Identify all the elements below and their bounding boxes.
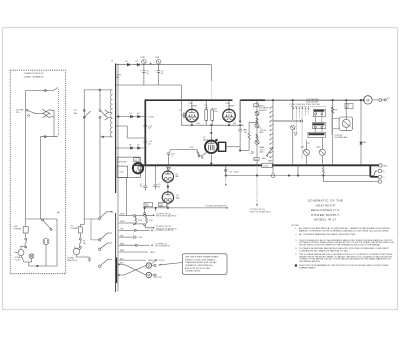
- svg-text:117VAC: 117VAC: [67, 257, 75, 260]
- primary feed left vertical: [83, 90, 85, 225]
- svg-text:1 15KV 10KV 5KV 2.5KV 1KV 500: 1 15KV 10KV 5KV 2.5KV 1KV 500: [289, 104, 320, 106]
- svg-text:SCHEMATIC OF THE: SCHEMATIC OF THE: [308, 199, 344, 203]
- filter cap drop 2: [153, 165, 157, 189]
- heavy out leg down: [369, 165, 371, 177]
- coil to lower wire: [50, 110, 54, 136]
- tube V1: [186, 109, 199, 122]
- heavy rail top: [145, 99, 265, 101]
- note (A): [57, 211, 60, 214]
- svg-text:GRN: GRN: [150, 252, 155, 254]
- svg-text:POWER: POWER: [14, 229, 22, 231]
- choke on bus: [262, 163, 272, 167]
- junction dots: [145, 116, 147, 118]
- dashed link line: [57, 89, 58, 137]
- wire lower-left vertical: [39, 137, 41, 219]
- connector stubs: [152, 266, 155, 276]
- svg-text:+150V: +150V: [148, 116, 155, 118]
- tap row 3: [119, 229, 135, 231]
- DC+ jack: [379, 99, 382, 102]
- svg-text:(A): (A): [57, 211, 60, 214]
- main line plug: [73, 248, 79, 254]
- bleeder resistor right: [322, 165, 324, 175]
- loop resistor b: [146, 216, 148, 224]
- meter right lead: [372, 99, 379, 101]
- core lines: [117, 64, 118, 292]
- heater drop dashed: [256, 168, 258, 206]
- grid resistor R3: [197, 150, 207, 157]
- resistor block 2: [312, 123, 325, 129]
- pot P2: [255, 124, 259, 128]
- tap row 2: [119, 222, 134, 224]
- rect diode D3: [130, 115, 132, 118]
- electrolytic C1: [142, 65, 145, 85]
- diode labels: [126, 61, 139, 63]
- wire left vertical: [25, 91, 27, 220]
- filament winding heavy segment: [116, 258, 118, 284]
- svg-text:CONNECTIONS.: CONNECTIONS.: [185, 271, 201, 273]
- svg-text:PIN 7 OF V2 (NOTE 2): PIN 7 OF V2 (NOTE 2): [250, 212, 271, 214]
- feedback loop wires: [249, 123, 257, 151]
- V5 lead: [167, 165, 169, 171]
- inset right vertical: [56, 219, 58, 266]
- cal pots under block: [303, 149, 309, 155]
- node circle lower: [44, 136, 46, 138]
- top rail wire: [116, 64, 212, 66]
- V3 label: [203, 137, 209, 141]
- switch contacts: [270, 106, 273, 158]
- output column: [332, 100, 334, 165]
- rect feed 2 wire: [116, 147, 146, 149]
- transformer primary (inset): [42, 109, 47, 118]
- heavy ground bus: [140, 164, 379, 166]
- crossing heater wires: [119, 264, 146, 275]
- dashed link verticals: [301, 107, 303, 160]
- svg-text:CHASSIS IS WIRED FOR 230 VAC: CHASSIS IS WIRED FOR 230 VAC: [185, 261, 217, 264]
- svg-text:VOLTAGE ADJ: VOLTAGE ADJ: [334, 136, 347, 139]
- rect diode D6: [138, 147, 140, 150]
- B+ vertical: [360, 100, 362, 165]
- svg-text:WIRING COLOR CODE WHEN A: WIRING COLOR CODE WHEN A: [185, 258, 216, 261]
- V1 bottom lead: [191, 122, 193, 125]
- screen resistor R1: [205, 110, 208, 121]
- pot P3: [255, 140, 259, 144]
- tube V2: [223, 109, 236, 122]
- tap switch left (115/230): [83, 109, 85, 111]
- svg-text:PLUG: PLUG: [15, 259, 21, 261]
- wire from switch to coil: [34, 112, 43, 114]
- switch label: [16, 109, 24, 115]
- screen box: [117, 157, 140, 177]
- main fuse F1: [79, 238, 81, 240]
- V3 output wire: [226, 146, 240, 148]
- svg-text:MODEL IP-17: MODEL IP-17: [314, 218, 336, 222]
- header text: [289, 99, 320, 106]
- output terminal 1: [379, 164, 382, 167]
- V2 bottom lead: [228, 122, 230, 125]
- T1 label: [111, 61, 114, 63]
- svg-text:NOTES:: NOTES:: [292, 225, 300, 227]
- filter cap drop 1: [143, 165, 147, 190]
- mech link dashed: [330, 108, 332, 135]
- C6 bottom wire: [240, 150, 249, 152]
- meter M: [364, 96, 372, 104]
- wiper feed wire: [273, 120, 301, 122]
- svg-text:GRN-YEL: GRN-YEL: [118, 162, 128, 164]
- output pot enclosure: [339, 117, 353, 130]
- winding tap chevrons: [105, 110, 109, 120]
- tube V5: [162, 171, 173, 182]
- tap row 6: [119, 251, 148, 253]
- bottom wire connector: [102, 136, 104, 138]
- switch feed to rail jack: [271, 174, 275, 178]
- resistor block 1: [313, 109, 325, 116]
- svg-text:LINE PLUG: LINE PLUG: [67, 260, 78, 262]
- box lower lead: [126, 177, 128, 215]
- svg-text:PL1 6.3V: PL1 6.3V: [154, 277, 163, 279]
- secondary winding (upper): [115, 64, 117, 194]
- callout box: [183, 254, 228, 274]
- svg-text:HEATHKIT®: HEATHKIT®: [315, 203, 335, 207]
- rail corner down: [210, 65, 212, 81]
- svg-text:TRANSFORMER.: TRANSFORMER.: [299, 266, 316, 269]
- V5-V6 link: [167, 182, 169, 192]
- inset bottom rail: [29, 265, 57, 267]
- primary bottom wire: [100, 118, 112, 137]
- loop resistor a: [135, 216, 137, 224]
- drop 2: [155, 208, 157, 212]
- svg-text:AND NOTE 6 FOR 115 VAC: AND NOTE 6 FOR 115 VAC: [185, 267, 211, 270]
- electrolytic C2: [157, 65, 160, 85]
- wire down from 91: [91, 219, 100, 240]
- left drop from rail: [180, 100, 182, 125]
- svg-text:POWER SUPPLY: POWER SUPPLY: [311, 213, 339, 217]
- pot left links: [333, 119, 339, 129]
- svg-text:MARKED OTHERWISE ON THE SCHEMA: MARKED OTHERWISE ON THE SCHEMATIC DIAGRA…: [299, 229, 389, 232]
- svg-text:M: M: [366, 98, 369, 102]
- output terminal 4: [378, 180, 381, 183]
- switch (115/230 link): [28, 111, 36, 114]
- ground symbol: [88, 257, 92, 261]
- wire corner to dashed link: [54, 88, 58, 91]
- output terminal 3: [378, 175, 381, 178]
- tap row 7: [119, 259, 146, 261]
- svg-text:VAC: VAC: [74, 112, 79, 115]
- dashed box top: [291, 106, 326, 108]
- dashed enclosure box: [10, 70, 65, 274]
- svg-text:CONNECTIONS FOR: CONNECTIONS FOR: [24, 73, 44, 75]
- main power switch S1: [78, 227, 82, 233]
- row2 arrow: [145, 226, 153, 228]
- svg-text:USE THIS POWER TRANSFORMER: USE THIS POWER TRANSFORMER: [185, 256, 219, 259]
- svg-text:TO PINS 3+4 OF V3: TO PINS 3+4 OF V3: [155, 230, 174, 232]
- contact dots row: [293, 108, 309, 109]
- heavy vertical left: [144, 99, 146, 164]
- meter left lead dot: [363, 99, 365, 101]
- diode D2: [137, 63, 139, 66]
- inset plug: [18, 250, 24, 256]
- svg-text:1M: 1M: [244, 132, 247, 134]
- svg-text:THE RANGE SWITCH.: THE RANGE SWITCH.: [299, 260, 321, 263]
- tube V6: [162, 192, 173, 203]
- node circle: [44, 89, 46, 91]
- resistor R7 zigzag: [256, 134, 258, 139]
- svg-text:MIN: MIN: [262, 158, 266, 160]
- twisted lead: [372, 171, 377, 176]
- tap row 4: [119, 236, 133, 238]
- svg-text:REGULATED H.V.: REGULATED H.V.: [311, 208, 340, 212]
- svg-text:6.3V: 6.3V: [120, 171, 125, 173]
- divider vertical: [256, 100, 258, 165]
- svg-text:SET AT THE B+ POSITION. REFER: SET AT THE B+ POSITION. REFER TO THE OPE…: [299, 244, 381, 247]
- rail continuation to meter: [265, 99, 364, 101]
- dashed drop w arrow: [225, 177, 227, 186]
- output adj label: [334, 135, 347, 139]
- bias rail: [143, 207, 228, 209]
- switch column: [272, 100, 274, 165]
- pot P1: [255, 111, 259, 115]
- fuse to plug link: [79, 248, 80, 250]
- svg-text:OF V4 (NOTE 3): OF V4 (NOTE 3): [155, 246, 170, 248]
- inner sub box: [117, 166, 127, 177]
- wire lower horizontal: [40, 136, 57, 138]
- primary winding scallops: [110, 90, 112, 137]
- svg-text:230VAC OPERATION: 230VAC OPERATION: [24, 75, 44, 78]
- rect feed 1 wire: [116, 116, 146, 118]
- svg-text:(A): (A): [111, 211, 114, 214]
- arrow end: [226, 207, 228, 209]
- 115/230 selector contacts: [99, 217, 101, 219]
- winding label: [117, 75, 122, 80]
- second rail: [116, 84, 182, 86]
- svg-text:POWER: POWER: [71, 228, 79, 230]
- bias label box 2: [159, 203, 167, 207]
- svg-text:.01µF: .01µF: [234, 171, 240, 173]
- svg-text:PIN 4 OF V2 (NOTE 3): PIN 4 OF V2 (NOTE 3): [156, 216, 177, 218]
- pilot arrow: [151, 260, 156, 264]
- svg-text:TOLERANCES. ALL READINGS TAKEN: TOLERANCES. ALL READINGS TAKEN AT 117 VA…: [299, 249, 349, 252]
- block links: [316, 115, 322, 123]
- screen resistor R2: [211, 110, 214, 121]
- fuse label: [83, 241, 86, 246]
- svg-text:V1A: V1A: [189, 102, 193, 105]
- tap switch middle: [99, 90, 101, 110]
- node: [37, 265, 39, 267]
- wire upper horizontal: [26, 90, 54, 92]
- filter cap C3 on leg: [144, 125, 148, 126]
- diode D1: [127, 63, 129, 66]
- bias label box 1: [144, 202, 153, 206]
- selector stubs to core: [107, 212, 112, 260]
- lower rail: [226, 175, 372, 177]
- pilot connector 1: [146, 263, 151, 268]
- tube V3: [205, 141, 218, 154]
- tube V4: [133, 163, 143, 173]
- svg-text:MAX: MAX: [268, 160, 273, 163]
- tap wire color labels: [120, 214, 125, 265]
- filter cap C4 on leg: [144, 141, 148, 142]
- svg-text:GND: GND: [383, 165, 388, 167]
- second rail corner down: [180, 85, 182, 100]
- svg-text:TO JUNCTION R16 R17: TO JUNCTION R16 R17: [205, 206, 228, 208]
- tap row 5: [119, 244, 136, 246]
- S1 label: [71, 226, 79, 231]
- trimmer can 2: [156, 59, 161, 64]
- svg-text:1M: 1M: [294, 135, 297, 137]
- output terminal 2: [378, 169, 381, 172]
- sense pot: [291, 125, 295, 129]
- svg-text:L1 8H: L1 8H: [263, 166, 269, 168]
- plug label: [67, 257, 78, 263]
- inset selector diagonal: [42, 219, 44, 221]
- top wire connector: [99, 89, 101, 91]
- svg-text:ADJ: ADJ: [260, 151, 264, 154]
- primary top wire: [84, 89, 112, 91]
- V2 top lead: [228, 100, 230, 109]
- V1 top lead: [191, 100, 193, 109]
- grid bypass cap C10: [167, 153, 171, 165]
- heavy out leg right: [370, 176, 378, 178]
- chevron stubs: [108, 112, 112, 117]
- svg-text:R1B: R1B: [155, 57, 160, 59]
- cap C6: [238, 125, 242, 150]
- rect diode D5: [130, 147, 132, 150]
- V4 label box: [134, 158, 139, 162]
- left sense column: [292, 100, 294, 120]
- jack mid rail: [288, 175, 290, 177]
- V3 shield box: [219, 142, 226, 151]
- svg-text:ADJ: ADJ: [260, 131, 264, 134]
- inset fuse: [25, 238, 27, 240]
- svg-text:ALL VOLTAGES MEASURED WITH AN: ALL VOLTAGES MEASURED WITH AN 11 MEGOHM …: [299, 233, 356, 236]
- inset plug label: [15, 256, 23, 262]
- selector feed wires: [80, 224, 84, 226]
- resistor R6 zigzag: [256, 118, 258, 123]
- inset title text: [24, 73, 44, 78]
- secondary winding (lower): [115, 213, 117, 292]
- trimmer can 1: [142, 59, 147, 64]
- bleeder feed vertical: [225, 165, 227, 175]
- inset switch S1: [23, 227, 28, 234]
- pilot connector 2: [146, 272, 151, 277]
- inset power rail: [26, 218, 58, 220]
- R3 grid wire: [170, 150, 197, 153]
- drop 1: [144, 208, 146, 213]
- tap row 1: [119, 214, 134, 216]
- svg-text:TO PL1: TO PL1: [158, 260, 166, 262]
- minus line: [323, 176, 378, 182]
- lamp lead: [28, 262, 30, 266]
- V3 grid lead: [210, 125, 212, 140]
- C15 label box: [345, 103, 353, 108]
- inset neon lamp right: [43, 239, 49, 245]
- inset switch label: [14, 226, 22, 231]
- ground hatch below bus: [166, 167, 170, 171]
- svg-text:6.3V: 6.3V: [149, 220, 154, 222]
- resistor block 3: [308, 132, 326, 137]
- output pot: [342, 119, 350, 127]
- callout arrow: [160, 263, 183, 265]
- V3 cathode lead: [210, 153, 212, 165]
- rect diode D4: [138, 115, 140, 118]
- small link symbol: [150, 62, 152, 64]
- V2 label box: [226, 103, 235, 108]
- column resistor: [332, 107, 334, 113]
- V1 label box: [189, 102, 198, 108]
- svg-text:6.3V: 6.3V: [138, 220, 143, 222]
- faint continuation: [210, 81, 212, 100]
- cathode rail: [181, 124, 243, 126]
- svg-text:ADJUST: ADJUST: [259, 109, 268, 112]
- svg-text:OPERATION. SEE DETAIL (A): OPERATION. SEE DETAIL (A): [185, 264, 213, 267]
- inset lamp symbol: [29, 254, 34, 259]
- primary lower vertical: [99, 137, 101, 217]
- zener diode: [360, 142, 363, 145]
- grid cap C5: [181, 113, 187, 119]
- svg-text:R1A: R1A: [141, 56, 146, 59]
- resistor box R5: [254, 104, 259, 107]
- switch wiper arm: [266, 148, 273, 156]
- V6 bottom lead: [167, 203, 169, 208]
- feedback resistor R4: [248, 133, 250, 139]
- tap corner wire: [116, 126, 146, 138]
